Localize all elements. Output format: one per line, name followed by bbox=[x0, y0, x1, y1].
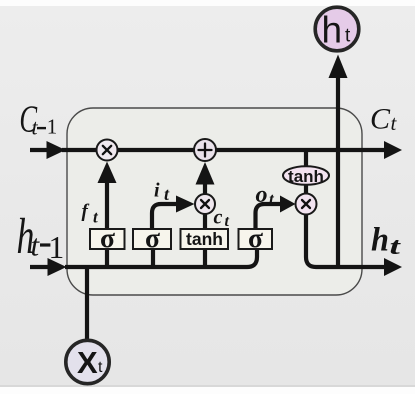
svg-text:σ: σ bbox=[100, 222, 115, 253]
svg-text:h: h bbox=[322, 10, 343, 51]
svg-text:C: C bbox=[370, 103, 391, 136]
svg-text:σ: σ bbox=[248, 222, 263, 253]
svg-text:X: X bbox=[77, 345, 98, 380]
svg-text:i: i bbox=[154, 180, 160, 202]
svg-text:h: h bbox=[371, 221, 389, 259]
svg-text:t: t bbox=[98, 359, 103, 376]
svg-text:t: t bbox=[225, 213, 230, 230]
svg-text:1: 1 bbox=[47, 115, 58, 139]
svg-text:tanh: tanh bbox=[186, 229, 223, 249]
svg-text:o: o bbox=[256, 182, 268, 208]
svg-text:t: t bbox=[345, 26, 351, 47]
svg-text:σ: σ bbox=[145, 222, 160, 253]
svg-text:t: t bbox=[31, 227, 41, 262]
svg-text:c: c bbox=[214, 207, 223, 229]
svg-text:1: 1 bbox=[49, 230, 65, 265]
svg-text:t: t bbox=[390, 233, 402, 260]
svg-text:tanh: tanh bbox=[288, 167, 324, 186]
